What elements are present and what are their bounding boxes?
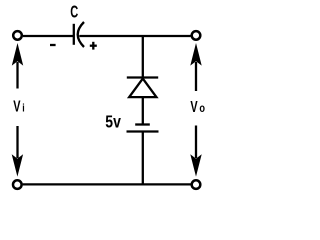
svg-text:o: o <box>199 103 205 115</box>
svg-text:C: C <box>70 3 78 22</box>
terminal: bottom-right <box>192 180 201 189</box>
arrow shaft: Vo up arrow <box>195 62 197 91</box>
capacitor C (polarized): left plate <box>73 24 75 45</box>
diode: cathode bar <box>127 76 158 78</box>
arrowhead: Vi up arrow <box>12 43 23 66</box>
battery 5v: short plate <box>135 123 150 125</box>
wire: bottom rail <box>23 183 191 185</box>
wire: battery to bottom rail <box>142 132 144 185</box>
cap polarity minus sign <box>50 44 56 46</box>
wire: capacitor to top-right terminal <box>79 35 190 37</box>
battery 5v: long plate <box>127 130 159 132</box>
label Vi <box>13 97 25 115</box>
diode: triangle (anode), apex up <box>129 79 156 98</box>
wire: top junction to diode cathode <box>142 36 144 78</box>
wire: top-left terminal to capacitor <box>23 35 74 37</box>
terminal: bottom-left <box>13 180 22 189</box>
arrowhead: Vo up arrow <box>190 43 201 66</box>
arrow shaft: Vi up arrow <box>16 62 18 89</box>
terminal: top-left input <box>13 31 22 40</box>
arrowhead: Vi down arrow <box>12 154 23 176</box>
cap polarity plus sign: vertical <box>92 42 94 50</box>
svg-text:V: V <box>190 98 198 116</box>
svg-text:i: i <box>22 103 25 115</box>
svg-text:V: V <box>13 97 21 115</box>
svg-text:5v: 5v <box>105 113 121 132</box>
arrow shaft: Vi down arrow <box>16 126 18 158</box>
label Vo <box>190 98 205 116</box>
arrow shaft: Vo down arrow <box>195 126 197 159</box>
arrowhead: Vo down arrow <box>190 154 201 176</box>
capacitor C: curved plate <box>78 22 84 47</box>
cap polarity plus sign: horizontal <box>90 45 97 47</box>
wire: diode anode to battery <box>142 97 144 124</box>
terminal: top-right output <box>192 31 201 40</box>
